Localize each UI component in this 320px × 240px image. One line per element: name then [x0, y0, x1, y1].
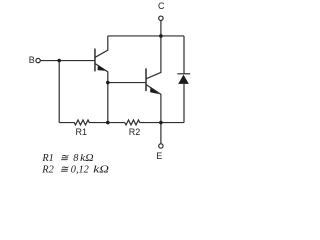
- wire left branch down: [58, 61, 60, 123]
- diode D1: [177, 36, 190, 123]
- svg-text:0,12: 0,12: [71, 165, 89, 176]
- resistor R2: [125, 120, 161, 125]
- junction node at E: [159, 121, 163, 125]
- junction node R1-R2: [106, 121, 110, 125]
- svg-text:≅: ≅: [60, 165, 70, 176]
- transistor Q1: [95, 36, 108, 123]
- resistor R1: [59, 120, 125, 125]
- svg-text:≅: ≅: [60, 153, 70, 164]
- junction node at B branch: [57, 59, 61, 63]
- transistor Q2: [146, 36, 161, 123]
- value label R2 = 0,12 kOhm: [41, 165, 109, 176]
- wire E drop: [160, 123, 162, 144]
- wire C to rail: [160, 20, 162, 36]
- junction node Q1 emitter / Q2 base: [106, 81, 110, 85]
- wire top rail: [108, 35, 184, 37]
- wire B to Q1 base: [40, 60, 95, 62]
- svg-text:R2: R2: [129, 127, 141, 137]
- svg-text:8: 8: [73, 153, 79, 164]
- terminal E circle: [159, 144, 163, 148]
- svg-text:kΩ: kΩ: [93, 165, 109, 176]
- wire Q1 emitter to Q2 base: [108, 82, 146, 84]
- svg-text:R1: R1: [41, 153, 53, 164]
- value label R1 = 8 kOhm: [41, 153, 94, 164]
- svg-text:R2: R2: [41, 165, 53, 176]
- svg-text:R1: R1: [76, 127, 88, 137]
- terminal B circle: [36, 58, 40, 62]
- wire to diode: [161, 122, 184, 124]
- svg-text:kΩ: kΩ: [80, 153, 94, 164]
- junction node at C: [159, 34, 163, 38]
- svg-text:C: C: [158, 1, 165, 11]
- svg-text:B: B: [29, 55, 35, 65]
- terminal C circle: [159, 16, 163, 20]
- svg-text:E: E: [156, 151, 162, 161]
